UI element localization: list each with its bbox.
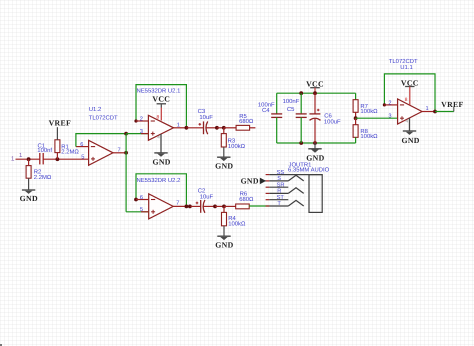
pin 7 output U1.2 — [113, 148, 126, 154]
resistor R5 — [224, 113, 256, 130]
svg-text:R: R — [277, 189, 281, 195]
svg-text:680Ω: 680Ω — [239, 196, 254, 203]
ground below R2 — [20, 190, 38, 203]
svg-text:GND: GND — [241, 176, 259, 185]
jack pin SR — [266, 182, 289, 188]
svg-text:U1.1: U1.1 — [400, 64, 412, 71]
pin 7 output U2.2 — [173, 201, 190, 207]
resistor R4 — [222, 206, 246, 236]
ground below R3 — [215, 157, 233, 171]
wire main vertical to U2.2 — [125, 134, 127, 212]
wire VCC top rail — [277, 92, 356, 94]
svg-text:8: 8 — [157, 114, 160, 120]
jack switch chevron 1 — [288, 175, 303, 181]
svg-text:NE5532DR U2.2: NE5532DR U2.2 — [137, 177, 181, 184]
svg-text:VCC: VCC — [152, 94, 170, 103]
jack switch chevron 3 — [288, 200, 303, 206]
svg-text:7: 7 — [176, 201, 179, 207]
pin 6 U2.2 — [136, 195, 149, 201]
wire divider to U1.1 pin3 — [356, 117, 398, 119]
resistor R3 — [221, 128, 245, 157]
connector JOUTR1 6.35mm audio jack — [288, 161, 330, 173]
svg-text:7: 7 — [118, 148, 121, 154]
svg-text:100kΩ: 100kΩ — [228, 221, 246, 228]
op-amp U2.2 — [137, 177, 181, 219]
svg-text:100kΩ: 100kΩ — [228, 143, 246, 150]
svg-text:6: 6 — [140, 195, 143, 201]
capacitor C2 — [190, 188, 215, 213]
node junction at R1 — [56, 157, 60, 161]
svg-text:100kΩ: 100kΩ — [360, 133, 378, 140]
resistor R2 — [26, 159, 52, 190]
resistor R8 — [353, 118, 378, 143]
svg-text:1: 1 — [177, 123, 180, 129]
node junction output U1.2 — [124, 151, 128, 155]
capacitor C1 — [37, 142, 52, 164]
node junctions on rails — [313, 91, 317, 95]
ground below cap bank — [306, 143, 324, 163]
svg-text:5: 5 — [140, 207, 143, 213]
jack pin S — [266, 176, 289, 182]
svg-text:5: 5 — [81, 154, 84, 160]
pin 6 U1.2 — [76, 142, 89, 148]
net flag VCC at U2.1 — [152, 94, 170, 120]
jack pin T — [266, 201, 289, 207]
svg-text:C6: C6 — [324, 112, 332, 119]
svg-text:3: 3 — [388, 114, 391, 120]
net flag VCC at U1.1 — [401, 79, 419, 106]
svg-text:10uF: 10uF — [200, 193, 214, 200]
capacitor C3 — [186, 108, 217, 134]
jack switch chevron 2 — [288, 188, 303, 194]
wire GND bottom rail — [277, 142, 356, 144]
node 1 input net label — [11, 152, 23, 162]
svg-text:6: 6 — [80, 142, 83, 148]
pin 2 U2.1 — [136, 116, 148, 122]
svg-text:2: 2 — [140, 116, 143, 122]
svg-text:C5: C5 — [287, 106, 295, 113]
pin 1 output U1.1 — [422, 106, 435, 112]
svg-text:100nf: 100nf — [37, 147, 52, 154]
pin 1 output U2.1 — [174, 123, 187, 129]
svg-text:GND: GND — [306, 154, 324, 163]
svg-text:GND: GND — [215, 241, 233, 250]
svg-text:2.2MΩ: 2.2MΩ — [61, 149, 79, 156]
node junctions after C2 — [213, 205, 217, 209]
svg-text:GND: GND — [20, 194, 38, 203]
wire R6 to jack tip — [249, 205, 269, 207]
svg-text:GND: GND — [215, 162, 233, 171]
svg-text:6.35MM AUDIO: 6.35MM AUDIO — [288, 166, 330, 173]
node junction output U1.1 — [433, 110, 437, 114]
svg-text:SS: SS — [277, 170, 285, 176]
svg-text:100kΩ: 100kΩ — [360, 108, 378, 115]
resistor R7 — [353, 100, 378, 119]
jack pin ST — [266, 195, 289, 201]
ground flag at jack sleeve — [241, 176, 266, 185]
ground below R4 — [215, 236, 233, 249]
svg-text:VREF: VREF — [441, 100, 463, 109]
svg-text:SR: SR — [277, 182, 285, 188]
svg-text:1: 1 — [426, 106, 429, 112]
wire C1 to opamp pin5 — [43, 158, 88, 160]
capacitor C4 — [258, 93, 282, 143]
pin 3 U2.1 wire — [126, 129, 148, 135]
node junction output U2.1 — [185, 126, 189, 130]
svg-text:2: 2 — [388, 100, 391, 106]
svg-text:GND: GND — [401, 136, 419, 145]
svg-text:S: S — [277, 176, 281, 182]
pin 5 U2.2 — [126, 207, 149, 213]
ground at U2.1 pin4 — [152, 134, 170, 166]
node junction feedback U1.2 — [124, 132, 128, 136]
svg-text:10uF: 10uF — [199, 114, 213, 121]
svg-text:3: 3 — [140, 129, 143, 135]
node junction divider — [354, 116, 358, 120]
ground at U1.1 pin4 — [401, 118, 419, 145]
svg-text:T: T — [277, 201, 281, 207]
node junctions output U2.2 — [185, 205, 189, 209]
op-amp U2.1 — [137, 88, 181, 141]
wire input to C1 — [16, 158, 40, 160]
net flag VREF right — [441, 100, 463, 112]
jack body — [309, 175, 322, 213]
node junctions after C3 — [215, 126, 219, 130]
wire feedback U1.2 — [76, 134, 126, 147]
svg-text:2.2MΩ: 2.2MΩ — [34, 174, 52, 181]
svg-text:U1.2: U1.2 — [89, 106, 101, 113]
wire feedback loop U2.2 — [136, 174, 186, 207]
net flag VCC main — [306, 80, 324, 94]
jack pin SS — [266, 170, 323, 176]
svg-text:TL072CDT: TL072CDT — [89, 114, 118, 121]
jack pin R — [266, 189, 289, 195]
wire feedback loop U1.1 — [384, 74, 435, 112]
wire output U1.1 to VREF — [435, 111, 454, 113]
svg-text:680Ω: 680Ω — [239, 118, 254, 125]
svg-text:ST: ST — [277, 195, 285, 201]
svg-text:GND: GND — [152, 157, 170, 166]
svg-text:VREF: VREF — [49, 119, 71, 128]
pin 2 U1.1 — [384, 100, 397, 106]
resistor R6 — [224, 191, 254, 209]
svg-text:100uF: 100uF — [324, 118, 341, 125]
resistor R1 — [55, 127, 79, 159]
capacitor C6 polarized — [309, 93, 341, 143]
svg-text:8: 8 — [405, 97, 408, 103]
capacitor C5 — [283, 93, 307, 143]
svg-text:100nF: 100nF — [283, 98, 300, 105]
wire feedback loop U2.1 — [136, 85, 186, 128]
wire right rail down — [355, 93, 357, 100]
op-amp U1.2 — [89, 106, 118, 165]
svg-text:C4: C4 — [262, 107, 270, 114]
node junction at R2 — [27, 157, 31, 161]
op-amp U1.1 — [389, 58, 422, 124]
